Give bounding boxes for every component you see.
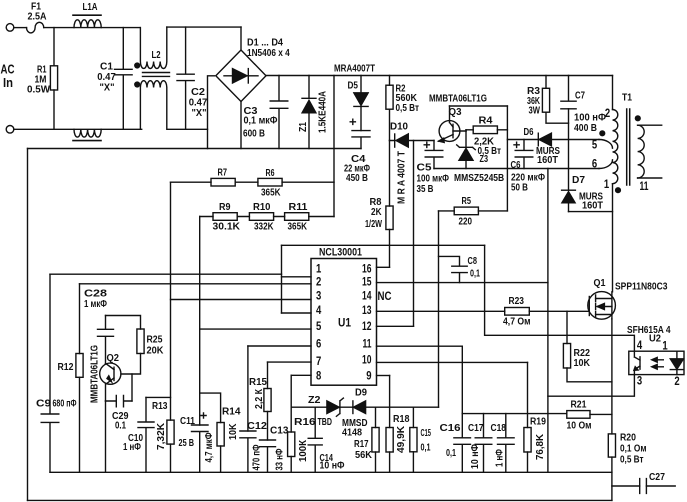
phase dot secondary [635, 116, 640, 121]
svg-text:R15: R15 [249, 377, 267, 388]
svg-text:50 В: 50 В [511, 183, 528, 194]
choke L2 bottom winding [140, 81, 207, 130]
resistor R25 [137, 329, 144, 354]
diode D7 [562, 189, 576, 191]
svg-text:160T: 160T [582, 201, 603, 212]
svg-text:R20: R20 [620, 433, 636, 444]
svg-text:25 В: 25 В [179, 438, 195, 449]
wire bottom AC line [14, 128, 142, 130]
svg-text:In: In [3, 76, 13, 90]
capacitor C15 box style [410, 428, 417, 452]
wire secondary top [638, 124, 662, 126]
svg-text:T1: T1 [622, 93, 632, 104]
svg-text:4,7 Ом: 4,7 Ом [503, 317, 531, 328]
svg-text:R13: R13 [152, 401, 168, 412]
svg-text:400 В: 400 В [574, 123, 597, 134]
wire C7 to D7 riser [568, 109, 570, 190]
svg-text:600 В: 600 В [243, 129, 265, 140]
terminal AC top [6, 24, 14, 32]
svg-text:"X": "X" [192, 108, 207, 119]
capacitor C13 [260, 440, 276, 472]
wire C28 R25 top row [106, 316, 141, 330]
diode D9 [352, 401, 354, 414]
svg-text:NCL30001: NCL30001 [319, 247, 362, 259]
wire left vertical bus [27, 149, 29, 501]
svg-text:4,7 мкФ: 4,7 мкФ [204, 432, 215, 462]
wire C16 C17 C18 R21 row [462, 413, 612, 416]
wire pin6 riser [247, 346, 249, 431]
wire C27 row [612, 485, 675, 487]
capacitor C27 [640, 479, 647, 494]
svg-text:1 нФ: 1 нФ [123, 442, 141, 453]
svg-text:9: 9 [366, 371, 371, 383]
svg-text:4: 4 [316, 305, 322, 317]
resistor R18 [386, 428, 393, 453]
svg-text:Z2: Z2 [308, 395, 321, 406]
svg-text:0,1 мкФ: 0,1 мкФ [244, 116, 278, 127]
resistor R9 [213, 213, 237, 221]
wire pin12 stub [377, 325, 414, 327]
svg-text:0,1: 0,1 [421, 443, 431, 454]
inductor L1A top winding [74, 20, 101, 28]
svg-text:R18: R18 [393, 414, 410, 425]
capacitor C2 [177, 27, 194, 129]
wire Q2 emitter to bus [105, 401, 107, 472]
svg-text:C13: C13 [270, 426, 289, 437]
capacitor C6 [515, 140, 533, 169]
wire feedback riser [170, 182, 172, 420]
wire C9 row [50, 273, 282, 275]
svg-text:C18: C18 [491, 423, 507, 434]
svg-text:Z1: Z1 [298, 122, 309, 132]
wire C15 drop [412, 407, 414, 427]
resistor R12 [79, 284, 81, 473]
svg-text:76,8K: 76,8K [535, 433, 546, 460]
optocoupler U2 light arrows [654, 360, 664, 367]
svg-text:MMBTA06LT1G: MMBTA06LT1G [429, 94, 487, 105]
choke L2 top winding [140, 27, 166, 68]
svg-text:1 мкФ: 1 мкФ [84, 299, 107, 310]
svg-text:MMBTA06LT1G: MMBTA06LT1G [90, 345, 101, 403]
svg-text:11: 11 [363, 339, 372, 351]
wire pin7 stub [268, 361, 312, 363]
optocoupler U2 LED [670, 351, 683, 374]
diode D6 [537, 133, 539, 146]
label plus C6 [513, 142, 520, 149]
svg-text:6: 6 [316, 339, 321, 351]
resistor R17 [372, 428, 379, 453]
svg-text:C5: C5 [417, 163, 432, 174]
wire R17 drop [375, 407, 377, 427]
wire pin11 riser [461, 346, 463, 413]
resistor R21 [567, 411, 590, 419]
resistor R11 [285, 213, 309, 221]
wire pin9 stub [377, 375, 390, 377]
svg-text:0,5 Вт: 0,5 Вт [620, 455, 644, 466]
wire R7 R6 row [171, 181, 335, 183]
svg-text:R4: R4 [479, 116, 493, 127]
svg-text:0.1: 0.1 [115, 421, 126, 432]
svg-text:D7: D7 [572, 175, 585, 186]
svg-text:R23: R23 [509, 296, 525, 307]
svg-text:C28: C28 [84, 289, 108, 300]
svg-text:C15: C15 [421, 428, 432, 439]
svg-text:R17: R17 [354, 439, 369, 450]
wire outer bottom [28, 499, 612, 501]
svg-text:M R A 4007 T: M R A 4007 T [397, 151, 408, 204]
capacitor C10 [138, 397, 154, 472]
transformer T1 pin1 to drain [612, 184, 614, 292]
svg-text:13: 13 [362, 305, 372, 317]
wire R9 R10 R11 row [200, 216, 334, 218]
svg-text:2: 2 [605, 108, 610, 120]
transformer T1 primary feed [612, 76, 614, 110]
svg-text:365K: 365K [288, 222, 308, 233]
svg-text:D6: D6 [524, 127, 534, 138]
wire pin15 row [377, 282, 548, 284]
svg-text:35 В: 35 В [417, 184, 434, 195]
svg-text:4: 4 [637, 340, 643, 352]
wire divider feed vertical [333, 76, 335, 217]
svg-text:0.47: 0.47 [189, 98, 208, 109]
wire pin6 tap arc [599, 160, 613, 169]
wire pin6 stub [248, 345, 311, 347]
optocoupler U2 phototransistor [634, 351, 640, 374]
svg-text:C17: C17 [468, 423, 484, 434]
label plus C5 [424, 142, 431, 149]
IC U1 NCL30001 box [311, 259, 377, 386]
svg-text:3: 3 [316, 291, 321, 303]
phase dot primary top [600, 131, 605, 136]
svg-text:7,32K: 7,32K [156, 422, 167, 450]
svg-text:15: 15 [362, 277, 372, 289]
wire secondary bottom [638, 177, 662, 179]
svg-text:Q2: Q2 [107, 353, 120, 364]
transformer T1 primary winding [613, 110, 618, 184]
resistor R3 [545, 76, 547, 89]
resistor R23 [505, 308, 530, 316]
svg-text:R10: R10 [253, 202, 271, 213]
svg-text:1 нФ: 1 нФ [495, 449, 506, 467]
svg-text:R7: R7 [218, 168, 228, 179]
svg-text:R9: R9 [219, 202, 231, 213]
capacitor C4 [352, 131, 370, 149]
wire Vcc to opto row [485, 245, 635, 351]
capacitor C16 [454, 414, 471, 473]
svg-text:R11: R11 [289, 202, 308, 213]
wire D6 row [507, 139, 599, 141]
resistor R22 [563, 344, 570, 369]
wire snubber riser R5 C8 D9 [438, 211, 440, 407]
capacitor C9 [41, 274, 59, 472]
zener Z2 [327, 401, 339, 414]
wire snubber box right side [506, 106, 508, 211]
wire R25 to Q2 collector-base node [121, 354, 141, 375]
svg-text:8: 8 [316, 371, 322, 383]
capacitor C7 [561, 76, 576, 109]
resistor R10 [249, 213, 273, 221]
inductor L1B bottom winding [74, 129, 101, 137]
svg-text:C16: C16 [440, 423, 461, 434]
wire pin16 stub [377, 266, 390, 268]
svg-text:6: 6 [592, 159, 597, 171]
svg-text:R12: R12 [58, 362, 74, 373]
svg-text:D5: D5 [348, 81, 359, 92]
capacitor C17 [475, 414, 492, 473]
wire R14 branch [200, 393, 221, 422]
capacitor C3 [270, 76, 288, 149]
capacitor C1 [115, 28, 133, 130]
svg-text:C1: C1 [100, 62, 113, 73]
resistor R16 [288, 432, 295, 457]
capacitor C12 [240, 431, 256, 472]
phase dot L2 bottom [135, 82, 140, 87]
capacitor C14 [308, 407, 322, 472]
svg-text:5: 5 [316, 321, 322, 333]
wire pin12 riser [413, 141, 415, 327]
zener Z1 [302, 76, 316, 149]
svg-text:365K: 365K [261, 188, 281, 199]
wire R4 row [466, 130, 507, 131]
svg-text:1.5KE440A: 1.5KE440A [318, 91, 329, 133]
svg-text:C11: C11 [180, 416, 195, 427]
svg-text:C6: C6 [511, 160, 521, 171]
svg-text:D1 ... D4: D1 ... D4 [247, 38, 283, 49]
mosfet Q1 [588, 292, 616, 320]
transistor Q2 [100, 363, 121, 384]
wire fuse to L2 [44, 27, 140, 29]
svg-text:3: 3 [637, 376, 642, 388]
svg-text:"X": "X" [100, 83, 115, 94]
label plus C11 [200, 412, 207, 419]
svg-text:1/2W: 1/2W [365, 219, 382, 230]
svg-text:10 нФ: 10 нФ [470, 444, 481, 469]
svg-text:L2: L2 [152, 50, 161, 61]
core bar L1A [73, 14, 101, 16]
resistor R20 [608, 434, 615, 457]
capacitor C18 [498, 414, 515, 473]
svg-text:R19: R19 [530, 417, 546, 428]
wire top AC line [14, 27, 27, 29]
label plus C4 [350, 119, 357, 126]
svg-text:D10: D10 [390, 122, 408, 133]
svg-text:0.47: 0.47 [97, 72, 116, 83]
capacitor C11 [192, 425, 209, 472]
wire pin3 stub [171, 299, 312, 301]
svg-text:2: 2 [316, 277, 321, 289]
svg-text:56K: 56K [355, 450, 373, 461]
wire D10 row [390, 140, 435, 142]
zener Z3 [457, 130, 476, 150]
resistor R2 [389, 76, 391, 141]
svg-text:2K: 2K [371, 207, 382, 218]
svg-text:SPP11N80C3: SPP11N80C3 [615, 282, 668, 293]
wire pin7 riser [267, 362, 269, 388]
optocoupler U2 box [629, 351, 684, 374]
choke L2 core [143, 73, 170, 77]
svg-text:C2: C2 [191, 87, 205, 98]
bridge internal diode [224, 75, 258, 77]
resistor R15 [264, 389, 271, 412]
svg-text:100К: 100К [298, 439, 309, 462]
svg-text:10 Ом: 10 Ом [567, 421, 592, 432]
svg-text:450 В: 450 В [346, 173, 368, 184]
svg-text:11: 11 [640, 181, 649, 193]
wire pin2 row [80, 283, 312, 285]
wire D7 to drain [569, 211, 613, 213]
svg-text:470 пФ: 470 пФ [252, 444, 263, 470]
wire pin5 stub [200, 328, 311, 330]
wire Z2 D9 row [291, 406, 438, 408]
wire Vcc minus rail [434, 168, 599, 170]
wire Vref row [282, 244, 485, 246]
svg-text:3W: 3W [529, 106, 541, 117]
wire Q1 source column [611, 319, 613, 434]
svg-text:100 нФ: 100 нФ [574, 113, 606, 124]
svg-text:R21: R21 [571, 400, 587, 411]
svg-text:TBD: TBD [318, 417, 333, 428]
mosfet Q1 gate bar [588, 297, 590, 316]
svg-text:16: 16 [362, 264, 372, 276]
svg-text:C9: C9 [36, 399, 51, 410]
svg-text:U2: U2 [649, 334, 661, 345]
wire opto pin3 row [548, 375, 635, 397]
svg-text:R16: R16 [294, 417, 316, 428]
mosfet Q1 drain source connections [596, 292, 612, 319]
svg-text:12: 12 [362, 321, 372, 333]
diode D10 [394, 134, 396, 147]
transistor Q3 [439, 121, 460, 142]
svg-text:0,1 Ом: 0,1 Ом [620, 444, 647, 455]
resistor R14 [217, 423, 224, 447]
svg-text:R14: R14 [222, 407, 241, 418]
svg-text:C7: C7 [575, 91, 585, 102]
svg-text:U1: U1 [338, 318, 352, 330]
wire Q3 collector top row [450, 105, 508, 107]
resistor R1 vertical [53, 28, 55, 130]
wire AC2 node [208, 76, 215, 149]
wire pin1/pin4 riser [281, 245, 283, 313]
svg-text:1: 1 [662, 341, 668, 353]
svg-text:14: 14 [362, 291, 372, 303]
svg-text:1: 1 [604, 179, 610, 191]
fuse F1 [27, 22, 44, 33]
wire R22 bottom to source [567, 368, 612, 382]
resistor R6 [258, 178, 282, 186]
wire pin5 riser [199, 217, 201, 426]
svg-text:10K: 10K [228, 423, 239, 440]
svg-text:2,2 К: 2,2 К [254, 388, 265, 409]
svg-text:MRA4007T: MRA4007T [334, 64, 375, 75]
wire R5 row [439, 210, 508, 212]
svg-text:Q1: Q1 [594, 278, 606, 289]
capacitor C28 [98, 316, 114, 364]
wire pin10 row [377, 361, 528, 363]
svg-text:1: 1 [316, 264, 322, 276]
svg-text:L1A: L1A [83, 2, 98, 13]
wire Q2 base branch down [131, 374, 133, 401]
svg-text:Q3: Q3 [449, 107, 462, 118]
svg-text:C8: C8 [468, 256, 478, 267]
resistor R4 [473, 126, 497, 134]
phase dot L2 top [135, 63, 140, 68]
resistor R5 [454, 207, 478, 215]
wire ground riser [547, 169, 549, 473]
svg-text:332K: 332K [254, 222, 274, 233]
svg-text:C27: C27 [649, 472, 665, 483]
wire pin10 riser [527, 362, 529, 427]
svg-text:R6: R6 [266, 168, 275, 179]
wire bottom bus [50, 471, 612, 473]
capacitor C8 [439, 256, 468, 282]
transformer T1 secondary winding [638, 125, 645, 178]
wire R22 drop [566, 311, 568, 343]
svg-text:30.1K: 30.1K [213, 222, 241, 233]
wire pin8 stub [291, 374, 311, 376]
phase dot primary bottom [616, 188, 621, 193]
svg-text:7: 7 [316, 356, 321, 368]
svg-text:1N5406 x 4: 1N5406 x 4 [247, 48, 290, 59]
svg-text:AC: AC [1, 63, 15, 77]
wire bridge bottom to bus [240, 102, 242, 149]
resistor R7 [211, 178, 235, 186]
svg-text:220: 220 [459, 217, 473, 228]
wire pin8 riser [290, 375, 292, 432]
mosfet Q1 body arrow [598, 306, 612, 308]
svg-text:NC: NC [378, 291, 392, 303]
terminal AC bottom [6, 126, 14, 134]
wire L2 to bridge top [167, 26, 241, 28]
svg-text:4148: 4148 [342, 428, 362, 439]
resistor R13 [167, 420, 174, 444]
capacitor C29 [106, 395, 133, 406]
svg-text:D9: D9 [355, 388, 367, 399]
svg-text:10: 10 [362, 355, 372, 367]
svg-text:R5: R5 [462, 196, 472, 207]
wire pin11 stub [377, 345, 463, 347]
diode D5 [354, 76, 368, 131]
svg-text:10 нФ: 10 нФ [320, 461, 345, 472]
wire DC- bus [28, 148, 362, 150]
svg-text:2: 2 [674, 376, 679, 388]
svg-text:49,9K: 49,9K [396, 425, 407, 453]
resistor R8 [389, 141, 391, 268]
svg-text:10K: 10K [574, 358, 591, 369]
svg-text:20K: 20K [147, 346, 165, 357]
wire pin5 tap arc [599, 140, 613, 149]
core bar L1B [73, 140, 101, 142]
svg-text:MMSZ5245B: MMSZ5245B [454, 173, 504, 184]
wire R3 bottom to C7 [546, 112, 569, 123]
svg-text:2.5A: 2.5A [28, 12, 47, 23]
wire DC+ main bus [266, 75, 613, 77]
resistor R19 [524, 428, 531, 453]
wire pin1 stub [282, 276, 312, 278]
wire pin13 row R23 [377, 310, 589, 312]
svg-text:R25: R25 [147, 335, 163, 346]
wire pin9 riser [389, 376, 391, 428]
svg-text:Z3: Z3 [480, 154, 489, 165]
svg-text:33 нФ: 33 нФ [275, 448, 286, 470]
svg-text:100 мкФ: 100 мкФ [417, 174, 450, 185]
svg-text:0.5W: 0.5W [27, 85, 51, 96]
transformer T1 core [627, 109, 630, 185]
mosfet Q1 channel segments [595, 295, 597, 318]
wire bridge top feed [240, 27, 242, 50]
svg-text:160T: 160T [537, 155, 558, 166]
wire pin4 stub [282, 312, 312, 314]
svg-text:0,1: 0,1 [470, 269, 480, 280]
